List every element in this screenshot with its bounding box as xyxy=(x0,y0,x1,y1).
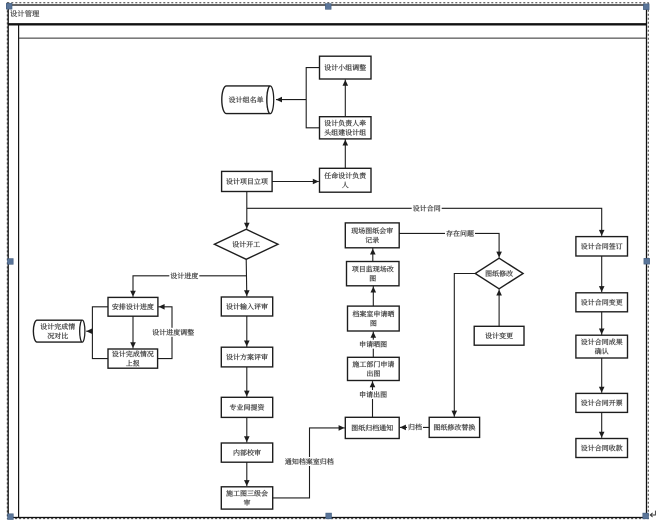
box 档案室申请晒图 xyxy=(348,306,400,331)
frame title 设计管理 xyxy=(10,10,39,17)
box 图纸归档通知 xyxy=(345,417,399,438)
box 设计输入评审 xyxy=(221,297,272,316)
wire 设计项目立项→设计开工 xyxy=(244,192,250,229)
wire 设计合同签订→设计合同变更 xyxy=(599,256,605,292)
label 存在问题 xyxy=(445,229,475,238)
wire 设计进度 branch →安排设计进度 xyxy=(130,276,246,297)
wire bracket→设计组名单 xyxy=(276,97,306,103)
title separator thick line xyxy=(8,23,646,25)
label 设计进度调整 xyxy=(151,328,195,337)
wire 设计完成情况上报→安排设计进度 feedback xyxy=(158,304,172,359)
box 设计变更 xyxy=(474,326,524,345)
band header horizontal line xyxy=(19,37,647,39)
wire 设计负责人牵头组建设计组→设计小组调整 xyxy=(343,80,349,117)
paragraph mark xyxy=(650,511,655,517)
label 通知档案室归档 xyxy=(284,457,335,466)
box 安排设计进度 xyxy=(108,297,158,316)
band left vertical line xyxy=(18,25,20,517)
box 设计合同开票 xyxy=(576,393,628,412)
box 现场图纸会审记录 xyxy=(345,223,399,248)
label 申请晒图 xyxy=(358,340,388,349)
box 设计负责人牵头组建设计组 xyxy=(320,117,372,139)
wire 项目监现场改图→现场图纸会审记录 xyxy=(370,249,376,262)
wire 设计输入评审→设计方案评审 xyxy=(244,316,250,347)
wire 设计方案评审→专业间提资 xyxy=(244,367,250,397)
box 设计合同收款 xyxy=(576,439,628,458)
wire 内部校审→施工图三级会审 xyxy=(244,462,250,486)
data store 设计完成情况对比 xyxy=(33,320,85,342)
wire 设计合同开票→设计合同收款 xyxy=(599,412,605,437)
wire 设计小组调整 bracket to 设计组名单 xyxy=(306,68,319,128)
wire 设计开工→设计输入评审 xyxy=(244,259,250,296)
box 施工部门申请出图 xyxy=(348,357,400,380)
wire bracket 安排设计进度/设计完成情况上报 xyxy=(92,307,108,359)
box 专业间提资 xyxy=(221,397,272,417)
wire 施工图三级会审→图纸归档通知 xyxy=(273,425,345,498)
wire 设计合同 wire →设计合同签订 xyxy=(247,208,605,236)
wire 设计合同成果确认→设计合同开票 xyxy=(599,358,605,393)
wire 档案室申请晒图→项目监现场改图 xyxy=(371,287,377,307)
decision 设计开工 xyxy=(214,229,278,259)
wire 设计变更→图纸修改 xyxy=(496,290,502,327)
box 图纸修改替换 xyxy=(429,417,479,437)
box 施工图三级会审 xyxy=(221,487,272,509)
box 设计方案评审 xyxy=(221,347,272,367)
wire 专业间提资→内部校审 xyxy=(244,417,250,442)
label 申请出图 xyxy=(358,390,388,399)
wire 施工部门申请出图→档案室申请晒图 xyxy=(371,332,377,358)
wire 设计合同变更→设计合同成果确认 xyxy=(599,312,605,335)
wire 现场图纸会审记录→图纸修改 存在问题 xyxy=(399,233,502,257)
box 设计合同变更 xyxy=(576,293,628,312)
box 设计完成情况上报 xyxy=(108,349,158,368)
wire 图纸归档通知→施工部门申请出图 xyxy=(370,381,376,417)
box 设计合同签订 xyxy=(576,237,628,256)
box 项目监现场改图 xyxy=(347,262,400,286)
wire 任命设计负责人→设计负责人牵头组建设计组 xyxy=(343,140,349,169)
wire 图纸修改→图纸修改替换 xyxy=(452,274,476,417)
box 设计项目立项 xyxy=(222,171,273,191)
wire 安排设计进度→设计完成情况上报 xyxy=(130,316,136,348)
data store 设计组名单 xyxy=(222,86,274,114)
wire 图纸修改替换→图纸归档通知 xyxy=(400,425,429,431)
wire bracket→设计完成情况对比 xyxy=(86,328,92,334)
label 设计进度 xyxy=(169,271,199,280)
label 归档 xyxy=(407,423,423,432)
label 设计合同 xyxy=(412,204,442,213)
box 任命设计负责人 xyxy=(320,168,372,192)
box 内部校审 xyxy=(221,443,272,462)
box 设计小组调整 xyxy=(320,56,372,79)
box 设计合同成果确认 xyxy=(576,335,628,358)
decision 图纸修改 xyxy=(475,258,523,289)
wire 设计项目立项→任命设计负责人 xyxy=(272,179,319,185)
